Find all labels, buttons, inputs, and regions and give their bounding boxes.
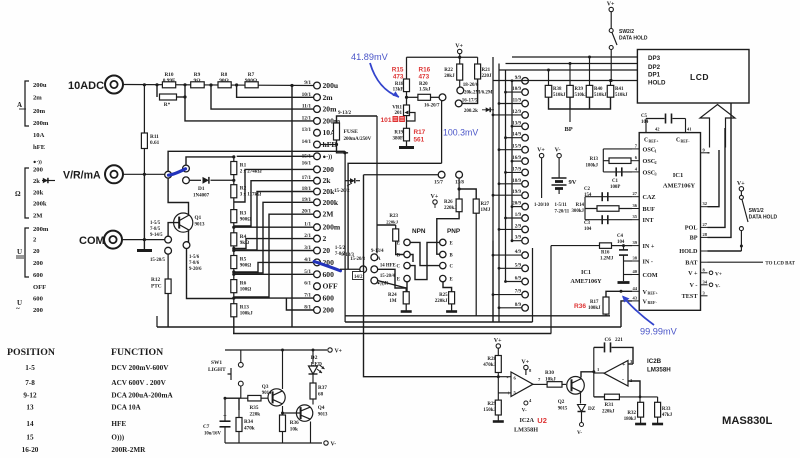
zener DZ (578, 405, 586, 412)
svg-text:18/9: 18/9 (512, 179, 521, 184)
op-amp IC2A LM358H (511, 372, 533, 397)
switch contact 14/9 (522, 134, 529, 141)
svg-text:100P: 100P (610, 185, 620, 190)
svg-text:9V: 9V (569, 179, 577, 186)
svg-text:●·)): ●·)) (323, 153, 333, 160)
terminal V/R/mA jack (105, 165, 123, 183)
switch contact 8/1 (200) (314, 307, 321, 314)
wire backlight V+ rail (225, 349, 327, 351)
svg-text:R25: R25 (439, 293, 448, 298)
svg-text:R15: R15 (392, 67, 404, 74)
resistor R2 3 x 117kΩ (233, 175, 235, 185)
resistor R31 220kJ (605, 394, 620, 400)
svg-text:6/1: 6/1 (304, 281, 311, 287)
resistor R8 90D (218, 82, 231, 88)
bracket A (current ranges) (25, 81, 29, 126)
svg-text:20: 20 (33, 248, 40, 255)
svg-text:CAZ: CAZ (643, 194, 656, 201)
svg-text:2M: 2M (323, 210, 334, 219)
label 14/2 box (353, 272, 364, 280)
wire + input (498, 392, 511, 394)
svg-text:E: E (397, 278, 400, 283)
svg-text:LCD: LCD (690, 72, 709, 82)
resistor R4 9kΩ (233, 223, 235, 233)
svg-text:1-20/10: 1-20/10 (534, 203, 550, 208)
wire pin9 to LCD arrow (708, 152, 710, 154)
wire HOLD to SW1/2 (740, 231, 742, 251)
svg-text:R30: R30 (545, 370, 554, 376)
svg-text:20k: 20k (33, 190, 44, 197)
svg-text:0.61: 0.61 (150, 140, 160, 146)
svg-text:+: + (622, 362, 626, 368)
svg-text:6/9: 6/9 (515, 277, 522, 282)
svg-text:DCA 10A: DCA 10A (111, 404, 141, 412)
svg-text:V+: V+ (431, 194, 439, 200)
svg-text:38: 38 (633, 256, 638, 261)
switch contact 16-17/5 (462, 79, 477, 103)
svg-text:V-: V- (715, 283, 720, 289)
wire V/R/mA to range switch (123, 173, 165, 175)
svg-text:200mA/250V: 200mA/250V (344, 137, 372, 142)
svg-text:8/9: 8/9 (515, 303, 522, 308)
resistor R34 470k (238, 398, 240, 417)
wire IC2B output left (594, 372, 604, 374)
resistor R32 180kJ (639, 397, 641, 402)
svg-text:R35: R35 (250, 405, 259, 411)
V+ terminal backlight (328, 348, 332, 352)
svg-text:900Ω: 900Ω (245, 78, 257, 84)
terminal 10ADC jack (105, 76, 123, 94)
svg-text:3/9: 3/9 (515, 236, 522, 241)
svg-text:C7: C7 (203, 424, 210, 430)
svg-text:R22: R22 (444, 68, 453, 73)
transistor Q2 9015 (567, 377, 585, 395)
svg-text:SW2/2: SW2/2 (619, 29, 634, 35)
svg-text:REF+: REF+ (648, 290, 659, 295)
svg-text:27: 27 (633, 191, 638, 196)
svg-text:1.2MJ: 1.2MJ (600, 257, 614, 262)
switch contact 1/1 (200m) (314, 224, 321, 231)
svg-text:561: 561 (414, 137, 425, 144)
svg-text:PNP: PNP (447, 228, 461, 235)
switch contact V/R common (165, 171, 172, 178)
svg-text:200k: 200k (323, 198, 339, 207)
switch contact 16-20/7 (439, 94, 446, 101)
svg-text:200: 200 (33, 167, 44, 174)
svg-text:OSC: OSC (643, 146, 656, 153)
svg-text:R5: R5 (240, 257, 247, 263)
wire COM contact to Q1 base (168, 223, 179, 237)
resistor R35 220k (248, 395, 261, 401)
svg-text:AME7106Y: AME7106Y (663, 183, 696, 190)
wire DP1 bus (499, 69, 637, 71)
svg-text:2k: 2k (33, 178, 40, 185)
C5 104 capacitor (CREF) (645, 119, 647, 133)
svg-text:470k: 470k (244, 426, 255, 432)
bottom rail 3 (157, 326, 621, 328)
svg-text:16/1: 16/1 (302, 160, 312, 166)
svg-text:1-5/5: 1-5/5 (150, 221, 161, 226)
ground under R29 (493, 420, 504, 423)
svg-text:DATA HOLD: DATA HOLD (749, 215, 778, 221)
wire tap 20m (211, 85, 314, 109)
svg-text:600: 600 (33, 272, 44, 279)
svg-text:DCV 200mV-600V: DCV 200mV-600V (111, 364, 169, 372)
svg-text:R19: R19 (394, 131, 403, 136)
wire Q3 emitter down (282, 406, 284, 443)
svg-text:9014: 9014 (262, 391, 272, 396)
svg-text:1-5/6: 1-5/6 (189, 255, 200, 260)
svg-text:R12: R12 (151, 277, 160, 283)
svg-text:hFE: hFE (33, 144, 46, 151)
wire DP3 bus (512, 56, 637, 58)
wire Q1 emitter (187, 231, 189, 242)
svg-text:A: A (17, 101, 22, 109)
wire IC2B + input (628, 363, 633, 365)
svg-text:-: - (622, 377, 624, 383)
svg-text:TEST: TEST (682, 293, 699, 300)
svg-text:36: 36 (633, 203, 638, 208)
svg-text:16/9: 16/9 (512, 156, 521, 161)
svg-text:68: 68 (318, 392, 324, 398)
svg-text:13: 13 (26, 404, 34, 412)
svg-text:14/1: 14/1 (302, 139, 312, 145)
svg-text:LM358H: LM358H (647, 367, 671, 374)
svg-text:16-20/7: 16-20/7 (424, 104, 440, 109)
wire 14HFE to R24 top (378, 269, 407, 291)
svg-text:100Ω: 100Ω (240, 288, 252, 293)
svg-text:9015: 9015 (558, 407, 568, 412)
wire IN- and COM to C4 bottom (624, 260, 633, 262)
svg-text:220kJ: 220kJ (602, 410, 615, 415)
svg-text:99.99mV: 99.99mV (640, 327, 678, 337)
svg-text:0.99F: 0.99F (163, 78, 176, 84)
svg-text:27: 27 (703, 222, 708, 227)
svg-text:15-20/5: 15-20/5 (150, 258, 166, 263)
svg-text:●·)): ●·)) (33, 159, 42, 166)
ground bar at COM (137, 249, 152, 252)
svg-text:104: 104 (584, 227, 592, 232)
svg-text:200R-2MR: 200R-2MR (111, 446, 146, 454)
svg-text:100.3mV: 100.3mV (443, 128, 478, 138)
switch contact 13/8 (456, 171, 463, 178)
svg-text:FUNCTION: FUNCTION (111, 347, 163, 358)
resistor R36 10k (280, 415, 286, 432)
wire tap row 200 (16/1) (234, 169, 314, 202)
svg-text:E: E (450, 241, 453, 246)
svg-text:R24: R24 (388, 293, 397, 298)
svg-text:16-20: 16-20 (22, 446, 39, 454)
switch contact 12/9 (522, 112, 529, 119)
resistor R21 220J (477, 57, 479, 64)
svg-text:R3: R3 (240, 211, 247, 217)
svg-text:600: 600 (33, 296, 44, 303)
svg-text:14/2: 14/2 (354, 275, 363, 280)
svg-text:IC1: IC1 (673, 172, 684, 179)
svg-text:DATA HOLD: DATA HOLD (619, 36, 648, 42)
svg-text:R33: R33 (662, 407, 671, 412)
svg-text:R17: R17 (590, 300, 599, 305)
svg-text:1N4007: 1N4007 (193, 194, 210, 199)
switch contact 17/1 (2k) (314, 177, 321, 184)
switch contact 5/1 (600) (314, 271, 321, 278)
svg-text:16-17/5: 16-17/5 (462, 99, 478, 104)
ground under R24 (401, 310, 412, 313)
svg-text:POSITION: POSITION (7, 347, 55, 358)
ground under R25 (446, 310, 457, 313)
wire HOLD bus (493, 80, 637, 82)
column2 outer box (532, 248, 534, 322)
svg-text:9kΩ: 9kΩ (240, 241, 249, 246)
svg-text:180kJ: 180kJ (624, 417, 637, 422)
resistor R25 220kJ (449, 292, 455, 304)
svg-text:200k: 200k (33, 201, 47, 208)
svg-text:200m: 200m (33, 226, 49, 233)
svg-text:2m: 2m (323, 93, 334, 102)
svg-text:11/9: 11/9 (513, 99, 522, 104)
resistor R12 PTC (167, 254, 169, 279)
switch contact 9-13/4 A (371, 254, 378, 261)
switch contact 6/1 (OFF) (314, 283, 321, 290)
resistor R41 510kJ (610, 81, 612, 86)
svg-text:32: 32 (703, 201, 708, 206)
switch contact 10/9 (522, 89, 529, 96)
svg-text:200: 200 (323, 306, 335, 315)
svg-text:LM358H: LM358H (514, 427, 538, 434)
svg-text:C: C (450, 265, 454, 270)
switch contact 12/1 (200m) (314, 118, 321, 125)
resistor R13 100kJ (233, 293, 235, 304)
blue switch blade (V/R/mA) (169, 169, 186, 175)
svg-text:DCA 200uA-200mA: DCA 200uA-200mA (111, 392, 173, 400)
resistor R1 2 x 274kΩ (233, 157, 235, 162)
svg-text:VR1: VR1 (392, 106, 402, 111)
svg-text:R34: R34 (244, 419, 253, 425)
wire Q2 emitter to DZ (580, 392, 582, 404)
switch contact to resistor chain (183, 165, 190, 172)
svg-text:9-13/4: 9-13/4 (371, 249, 384, 254)
svg-text:OFF: OFF (323, 282, 339, 291)
svg-text:R1: R1 (240, 163, 247, 169)
svg-text:40: 40 (633, 269, 638, 274)
svg-text:15: 15 (26, 434, 34, 442)
svg-text:473: 473 (419, 74, 430, 81)
svg-text:Q2: Q2 (558, 399, 565, 405)
switch contact 5/9 (522, 265, 529, 272)
svg-text:2: 2 (655, 160, 657, 165)
wire Q2 collector to output node (581, 372, 594, 378)
svg-text:470kJ: 470kJ (483, 363, 496, 368)
wire NPN E bottom to R24 (406, 282, 408, 292)
svg-text:R23: R23 (389, 214, 398, 219)
svg-text:BUF: BUF (643, 206, 656, 213)
wire Q1 collector loop (168, 178, 188, 214)
wire tap row 200k (19/1) (234, 202, 314, 273)
battery 9V symbol (552, 177, 567, 179)
resistor R17 100kJ (red R36) (603, 297, 609, 314)
svg-text:PTC: PTC (151, 284, 162, 290)
diode symbol 200.2k (482, 109, 486, 111)
svg-text:COM: COM (79, 235, 105, 247)
wire tap row 2k (17/1) (234, 181, 314, 226)
blue switch blade row 4/1 (314, 262, 341, 271)
bottom rail 4 (233, 333, 551, 335)
svg-text:12/9: 12/9 (512, 110, 521, 115)
svg-text:Q4: Q4 (318, 405, 325, 411)
wire R28 to inverting input (497, 373, 499, 377)
svg-text:V+: V+ (335, 349, 343, 355)
svg-text:10A: 10A (33, 132, 45, 139)
svg-text:IN -: IN - (643, 259, 653, 266)
svg-text:600: 600 (323, 270, 335, 279)
svg-text:20kJ: 20kJ (444, 74, 455, 79)
svg-text:510kJ: 510kJ (594, 93, 607, 98)
resistor R6 100Ω (233, 269, 235, 280)
svg-text:200.2k: 200.2k (464, 109, 478, 114)
svg-text:100kJ: 100kJ (588, 306, 601, 311)
svg-text:V+: V+ (455, 44, 463, 50)
output node vertical x594 (593, 347, 595, 397)
svg-text:R21: R21 (482, 68, 491, 73)
svg-text:DZ: DZ (588, 406, 596, 412)
hFE socket NPN pin E (404, 239, 410, 245)
wire VREF- down to rail (621, 301, 632, 327)
switch contact 15/7 (438, 171, 445, 178)
wire chain bottom to rail (233, 317, 235, 334)
svg-text:R38: R38 (553, 87, 562, 92)
wire top V+ rail (407, 56, 478, 58)
svg-text:SW1: SW1 (211, 360, 222, 366)
switch contact 4/9 (522, 252, 529, 259)
svg-text:9Ω: 9Ω (194, 78, 201, 84)
LCD block (637, 50, 749, 104)
hFE wiring NPN-PNP (410, 242, 439, 265)
svg-text:510kJ: 510kJ (553, 93, 566, 98)
svg-text:V -: V - (690, 282, 698, 289)
resistor R38 510kJ (548, 70, 550, 85)
svg-text:18-20/6: 18-20/6 (463, 83, 479, 88)
svg-text:90Ω: 90Ω (219, 78, 229, 84)
svg-text:ACV 600V . 200V: ACV 600V . 200V (111, 379, 166, 387)
column2 vertical bus lines (492, 57, 494, 322)
switch contact COM 1-5/5 (165, 236, 172, 243)
wire Q4 base from Q3 emitter (283, 412, 301, 414)
svg-text:OSC: OSC (643, 169, 656, 176)
hFE socket PNP pin C (440, 262, 446, 268)
svg-text:44: 44 (633, 286, 638, 291)
svg-text:600: 600 (323, 294, 335, 303)
resistor R11 0.61 (143, 85, 145, 134)
svg-text:101: 101 (381, 117, 392, 124)
svg-text:47kJ: 47kJ (662, 413, 673, 418)
svg-text:D1: D1 (198, 186, 205, 192)
svg-text:2m: 2m (33, 95, 42, 102)
switch contact 17/9 (522, 169, 529, 176)
switch contact 7/1 (600) (314, 295, 321, 302)
svg-text:INT: INT (643, 217, 655, 224)
svg-text:R18: R18 (395, 82, 404, 87)
long vertical from 10ADC rail x292 (291, 86, 293, 328)
svg-text:28: 28 (703, 232, 708, 237)
blue arrow to divider node (370, 63, 399, 97)
resistor R9 9D (191, 82, 205, 88)
capacitor C6 221 (594, 346, 604, 348)
wire SW1 to R35 (225, 397, 241, 399)
hFE socket NPN pin C (404, 262, 410, 268)
IC V- output (709, 283, 713, 287)
svg-text:1-5/11: 1-5/11 (555, 203, 568, 208)
hFE socket NPN pin B (404, 251, 410, 257)
switch contact 15/9 (522, 146, 529, 153)
switch contact 16/9 (522, 158, 529, 165)
bracket U= (DC volts) (25, 228, 29, 277)
wire R12 to bottom rail (167, 294, 169, 328)
switch contact 14 HFE (371, 266, 378, 273)
svg-text:C4: C4 (617, 234, 624, 239)
svg-text:7-20/11: 7-20/11 (555, 210, 570, 215)
svg-text:150kJ: 150kJ (483, 408, 496, 413)
svg-text:E: E (397, 241, 400, 246)
long vertical x377 (376, 116, 378, 253)
svg-text:5/9: 5/9 (515, 263, 522, 268)
svg-text:2/9: 2/9 (515, 224, 522, 229)
svg-text:R13: R13 (240, 305, 249, 311)
wire op-amp output to R30 (533, 383, 547, 385)
svg-text:IC2A: IC2A (520, 417, 535, 424)
svg-text:200: 200 (323, 165, 335, 174)
svg-text:200m: 200m (323, 223, 341, 232)
svg-text:BP: BP (565, 126, 573, 133)
svg-text:380F: 380F (392, 137, 403, 142)
svg-text:C5: C5 (641, 114, 648, 119)
wire y163 rail (348, 163, 442, 269)
wire Q3 collector up (282, 350, 284, 389)
svg-text:2M: 2M (33, 213, 43, 220)
svg-text:13kF: 13kF (393, 88, 404, 93)
ground under R33 (652, 423, 663, 426)
resistor R7 900D (245, 82, 258, 88)
resistor R40 510kJ (589, 57, 591, 85)
svg-text:C3: C3 (584, 221, 591, 226)
svg-text:FUSE: FUSE (344, 129, 359, 135)
hFE socket PNP pin E (440, 275, 446, 281)
wire R26 bottom to PNP B (437, 212, 459, 255)
wire 9-13/3 left rail (340, 268, 360, 270)
svg-text:9013: 9013 (318, 413, 328, 418)
svg-text:41: 41 (687, 127, 692, 132)
wire 1-5/6 down to chain bottom (187, 249, 234, 299)
svg-text:7-8/6: 7-8/6 (189, 261, 200, 266)
svg-text:TO LCD BAT: TO LCD BAT (765, 262, 795, 267)
transistor Q1 9013 (174, 213, 193, 232)
svg-text:220kJ: 220kJ (435, 299, 448, 304)
svg-text:HFE: HFE (111, 420, 126, 428)
svg-text:V+: V+ (494, 338, 502, 344)
svg-text:3: 3 (655, 171, 657, 176)
svg-text:C2: C2 (584, 187, 591, 192)
svg-text:42: 42 (655, 127, 660, 132)
switch contact 8/9 (522, 305, 529, 312)
wire input from left rail (482, 376, 498, 378)
svg-text:9013: 9013 (195, 223, 206, 228)
svg-text:220k: 220k (250, 412, 261, 418)
wire rows 7/1 8/1 to left (234, 297, 314, 299)
svg-text:14: 14 (26, 420, 34, 428)
switch contact 19/9 (522, 192, 529, 199)
svg-text:R28: R28 (487, 357, 496, 362)
svg-text:20m: 20m (33, 108, 46, 115)
hFE socket NPN pin E (404, 275, 410, 281)
